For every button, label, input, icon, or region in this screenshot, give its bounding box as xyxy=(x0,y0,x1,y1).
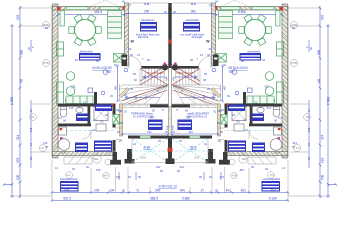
right unit (mirrored) xyxy=(164,0,338,202)
party wall center xyxy=(168,3,171,68)
party wall footing xyxy=(166,159,175,165)
svg-text:-0.50=102.10: -0.50=102.10 xyxy=(158,185,177,189)
left unit xyxy=(3,0,177,202)
red marker terrace center xyxy=(168,148,173,152)
party wall lower thin xyxy=(169,66,172,107)
party wall terrace stub xyxy=(168,136,172,160)
red marker party wall mid xyxy=(168,40,171,44)
party wall hatched section xyxy=(169,107,172,136)
